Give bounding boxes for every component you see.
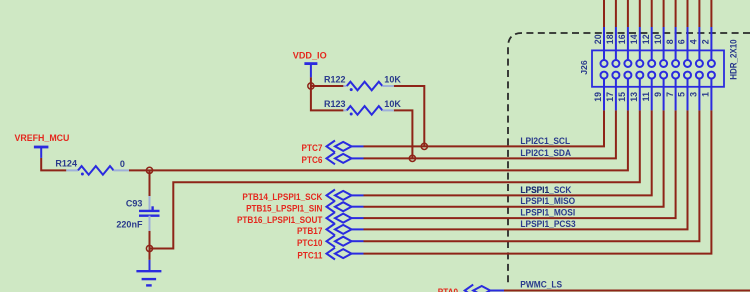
port terminal PTC11 lead: [352, 253, 364, 255]
svg-text:VREFH_MCU: VREFH_MCU: [15, 133, 70, 143]
power terminal VDD_IO stem: [310, 64, 312, 78]
port terminal PTB16_LPSPI1_SOUT chevron: [327, 212, 336, 224]
J26 pin 1 circle: [708, 72, 715, 79]
svg-text:17: 17: [605, 92, 615, 102]
wire to J26 pin 16 (top): [627, 0, 629, 27]
port terminal PTC10 lead: [352, 240, 364, 242]
J26 pin 9 circle: [660, 72, 667, 79]
svg-text:2: 2: [701, 39, 711, 44]
connector J26 body: [592, 50, 724, 86]
wire to J26 pin 2 (top): [710, 0, 712, 27]
J26 pin 14 stub (top): [639, 27, 641, 60]
svg-text:LPI2C1_SDA: LPI2C1_SDA: [520, 147, 571, 158]
J26 pin 5 stub (bottom): [687, 78, 689, 111]
port terminal PTC7 diamond: [335, 142, 352, 151]
J26 pin 17 stub (bottom): [615, 78, 617, 111]
svg-text:20: 20: [593, 34, 603, 44]
power terminal VREFH_MCU stem: [40, 147, 42, 158]
wire LPSPI1_PCS3 net (PTB17 to pin 5): [364, 110, 688, 229]
port terminal PTA0 lead: [490, 290, 504, 292]
wire VREFH_MCU terminal to R124: [41, 158, 66, 171]
J26 pin 20 circle: [601, 60, 608, 67]
wire to J26 pin 12 (top): [651, 0, 653, 27]
J26 pin 2 circle: [708, 60, 715, 67]
resistor R123 right lead: [382, 109, 393, 111]
wire to J26 pin 18 (top): [615, 0, 617, 27]
resistor R122 body: [347, 82, 383, 91]
svg-text:10: 10: [653, 34, 663, 44]
svg-text:R123: R123: [324, 99, 346, 109]
junction C93/ground node: [146, 245, 152, 251]
svg-text:9: 9: [653, 92, 663, 97]
svg-text:PTA0: PTA0: [438, 287, 458, 292]
svg-text:4: 4: [689, 39, 699, 44]
svg-text:VDD_IO: VDD_IO: [293, 50, 327, 60]
port terminal PTB16_LPSPI1_SOUT lead: [352, 217, 364, 219]
J26 pin 10 circle: [660, 60, 667, 67]
port terminal PTA0 chevron: [465, 285, 474, 292]
wire to J26 pin 8 (top): [675, 0, 677, 27]
J26 pin 7 circle: [672, 72, 679, 79]
svg-text:10K: 10K: [384, 74, 401, 84]
svg-text:15: 15: [617, 92, 627, 102]
J26 pin 13 circle: [636, 72, 643, 79]
J26 pin 15 stub (bottom): [627, 78, 629, 111]
resistor R123 left lead: [343, 109, 346, 111]
ground stem: [149, 260, 151, 271]
svg-text:220nF: 220nF: [116, 220, 142, 230]
J26 pin 9 stub (bottom): [663, 78, 665, 111]
wire LPI2C1_SDA net (PTC6 to pin 17): [364, 110, 616, 158]
junction R124/C93 node: [146, 167, 152, 173]
J26 pin 12 stub (top): [651, 27, 653, 60]
svg-text:PTC11: PTC11: [297, 250, 322, 261]
port terminal PTC7 chevron: [327, 141, 336, 153]
resistor R123 pin-1 dot: [350, 113, 353, 116]
J26 pin 18 circle: [612, 60, 619, 67]
J26 pin 6 circle: [684, 60, 691, 67]
port terminal PTB14_LPSPI1_SCK lead: [352, 194, 364, 196]
svg-text:18: 18: [605, 34, 615, 44]
svg-text:8: 8: [665, 39, 675, 44]
dashed region boundary: [508, 33, 750, 283]
port terminal PTC11 chevron: [327, 248, 336, 260]
J26 pin 3 stub (bottom): [698, 78, 700, 111]
svg-text:PTC7: PTC7: [301, 143, 322, 154]
J26 pin 2 stub (top): [710, 27, 712, 60]
svg-text:13: 13: [629, 92, 639, 102]
resistor R123 body: [347, 106, 383, 115]
resistor R122 left lead: [343, 85, 346, 87]
port terminal PTB17 chevron: [327, 224, 336, 236]
wire LPSPI1_MOSI net (PTB16 to pin 7): [364, 110, 676, 218]
svg-text:LPSPI1_MOSI: LPSPI1_MOSI: [520, 207, 575, 218]
svg-text:16: 16: [617, 34, 627, 44]
port terminal PTB14_LPSPI1_SCK diamond: [335, 191, 352, 200]
resistor R124 body: [78, 166, 114, 175]
capacitor C93 top lead: [149, 196, 151, 211]
J26 pin 17 circle: [612, 72, 619, 79]
J26 pin 7 stub (bottom): [675, 78, 677, 111]
J26 pin 19 circle: [601, 72, 608, 79]
resistor R122 right lead: [382, 85, 393, 87]
wire junction down to C93: [149, 170, 151, 196]
wire LPSPI1_MISO net (PTB15 to pin 9): [364, 110, 664, 206]
J26 pin 3 circle: [696, 72, 703, 79]
wire VREFH net (R124 to pin 15): [129, 110, 628, 170]
J26 pin 18 stub (top): [615, 27, 617, 60]
resistor R124 pin-1 dot: [81, 173, 84, 176]
svg-text:3: 3: [689, 92, 699, 97]
port terminal PTC6 chevron: [327, 153, 336, 165]
resistor R124 right lead: [114, 169, 129, 171]
svg-text:PTC6: PTC6: [301, 155, 322, 166]
J26 pin 13 stub (bottom): [639, 78, 641, 111]
wire to J26 pin 20 (top): [603, 0, 605, 27]
J26 pin 12 circle: [648, 60, 655, 67]
port terminal PTB17 diamond: [335, 225, 352, 234]
wire to J26 pin 14 (top): [639, 0, 641, 27]
port terminal PTC7 lead: [352, 145, 364, 147]
resistor R122 pin-1 dot: [350, 88, 353, 91]
svg-text:7: 7: [665, 92, 675, 97]
port terminal PTC10 chevron: [327, 235, 336, 247]
port terminal PTB15_LPSPI1_SIN diamond: [335, 202, 352, 211]
wire PWMC_LS net (PTA0 to right edge): [504, 290, 750, 292]
wire from C93 junction to pin 13: [150, 110, 640, 248]
wire LPSPI1_SCK net (PTB14 to pin 11): [364, 110, 652, 195]
junction R123/LPI2C1_SDA: [409, 155, 415, 161]
wire to J26 pin 10 (top): [663, 0, 665, 27]
svg-text:12: 12: [641, 34, 651, 44]
port terminal PTB15_LPSPI1_SIN chevron: [327, 201, 336, 213]
J26 pin 8 stub (top): [675, 27, 677, 60]
ground bar 3: [146, 284, 152, 286]
svg-text:LPI2C1_SCL: LPI2C1_SCL: [520, 135, 570, 146]
J26 pin 11 stub (bottom): [651, 78, 653, 111]
power terminal VDD_IO bar: [304, 62, 317, 65]
port terminal PTA0 diamond: [473, 286, 490, 292]
port terminal PTC10 diamond: [335, 237, 352, 246]
svg-text:PTB14_LPSPI1_SCK: PTB14_LPSPI1_SCK: [242, 192, 323, 203]
svg-text:LPSPI1: LPSPI1: [520, 184, 549, 195]
wire LPI2C1_SCL net (PTC7 to pin 19): [364, 110, 605, 146]
port terminal PTC11 diamond: [335, 249, 352, 258]
svg-text:19: 19: [593, 92, 603, 102]
wire R122 output down to LPI2C1_SCL: [394, 86, 425, 146]
J26 pin 8 circle: [672, 60, 679, 67]
svg-text:PTB17: PTB17: [297, 226, 323, 237]
svg-text:10K: 10K: [384, 99, 401, 109]
svg-text:C93: C93: [126, 198, 143, 208]
J26 pin 16 stub (top): [627, 27, 629, 60]
svg-text:PTB15_LPSPI1_SIN: PTB15_LPSPI1_SIN: [246, 203, 322, 214]
capacitor C93 bottom plate: [139, 214, 160, 216]
wire PTC10 net to pin 3: [364, 110, 700, 241]
wire VDD_IO rail down to R123 row: [311, 77, 344, 110]
svg-text:6: 6: [677, 39, 687, 44]
J26 pin 16 circle: [624, 60, 631, 67]
svg-text:J26: J26: [579, 60, 589, 75]
svg-text:LPSPI1_MISO: LPSPI1_MISO: [520, 196, 575, 207]
port terminal PTB14_LPSPI1_SCK chevron: [327, 190, 336, 202]
J26 pin 11 circle: [648, 72, 655, 79]
ground bar 2: [142, 278, 157, 280]
svg-text:14: 14: [629, 34, 639, 44]
svg-text:LPSPI1_PCS3: LPSPI1_PCS3: [520, 218, 575, 229]
svg-text:PTB16_LPSPI1_SOUT: PTB16_LPSPI1_SOUT: [237, 214, 323, 225]
ground bar 1: [136, 270, 161, 272]
J26 pin 1 stub (bottom): [710, 78, 712, 111]
J26 pin 19 stub (bottom): [603, 78, 605, 111]
capacitor C93 top plate: [139, 210, 160, 212]
wire to J26 pin 4 (top): [698, 0, 700, 27]
wire R123 output down to LPI2C1_SDA: [394, 110, 413, 158]
svg-text:HDR_2X10: HDR_2X10: [728, 39, 739, 80]
junction VDD_IO/R122/R123: [308, 83, 314, 89]
port terminal PTC6 lead: [352, 157, 364, 159]
svg-text:11: 11: [641, 92, 651, 101]
svg-text:0: 0: [120, 159, 125, 169]
svg-text:PWMC_LS: PWMC_LS: [520, 279, 562, 290]
J26 pin 20 stub (top): [603, 27, 605, 60]
J26 pin 14 circle: [636, 60, 643, 67]
J26 pin 6 stub (top): [687, 27, 689, 60]
port terminal PTB15_LPSPI1_SIN lead: [352, 206, 364, 208]
capacitor C93 bottom lead: [149, 216, 151, 231]
svg-text:R122: R122: [324, 74, 346, 84]
svg-text:5: 5: [677, 92, 687, 97]
power terminal VREFH_MCU bar: [34, 146, 49, 149]
svg-text:R124: R124: [55, 158, 77, 168]
port terminal PTC6 diamond: [335, 154, 352, 163]
svg-text:1: 1: [701, 92, 711, 97]
wire C93 down to ground junction: [149, 231, 151, 260]
J26 pin 4 stub (top): [698, 27, 700, 60]
port terminal PTB17 lead: [352, 228, 364, 230]
capacitor C93 polarity tick: [151, 206, 153, 210]
junction R122/LPI2C1_SCL: [421, 143, 427, 149]
resistor R124 left lead: [66, 169, 78, 171]
wire to J26 pin 6 (top): [687, 0, 689, 27]
J26 pin 15 circle: [624, 72, 631, 79]
wire VDD_IO junction to R122: [311, 85, 344, 87]
svg-text:PTC10: PTC10: [297, 238, 323, 249]
J26 pin 5 circle: [684, 72, 691, 79]
J26 pin 10 stub (top): [663, 27, 665, 60]
wire PTC11 net to pin 1: [364, 110, 712, 253]
J26 pin 4 circle: [696, 60, 703, 67]
port terminal PTB16_LPSPI1_SOUT diamond: [335, 214, 352, 223]
